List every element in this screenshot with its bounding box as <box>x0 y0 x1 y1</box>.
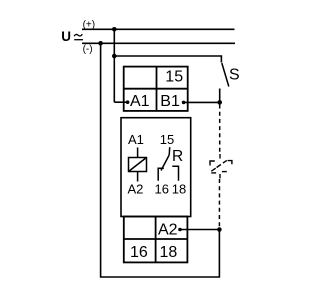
wire: (-) supply rail <box>82 42 235 44</box>
AC/DC symbol (tilde over bar) <box>74 34 82 36</box>
contact blade (closed to 16) <box>161 155 169 171</box>
svg-text:15: 15 <box>165 69 183 86</box>
wire: from terminal B1 to switch node <box>184 101 220 103</box>
svg-text:R: R <box>172 148 183 165</box>
module body box <box>121 118 191 217</box>
dashed branch wire upper <box>219 105 221 154</box>
svg-text:A2: A2 <box>128 181 144 196</box>
contact pole line from 15 <box>168 147 171 155</box>
terminal dot B1 <box>182 101 186 105</box>
wire: from terminal A2 to right node <box>180 229 219 231</box>
terminal dot A1 <box>126 100 130 104</box>
svg-text:18: 18 <box>160 244 178 261</box>
dashed external contact symbol <box>210 154 232 178</box>
svg-text:18: 18 <box>172 181 186 196</box>
dashed branch wire lower <box>218 179 220 227</box>
bottom terminal block <box>124 217 188 263</box>
node on (-) rail <box>98 41 103 46</box>
top terminal block <box>124 67 188 111</box>
switch S blade <box>222 63 229 87</box>
contact 18 hook <box>172 166 178 181</box>
coil lower lead <box>137 172 139 182</box>
node on (+) rail <box>112 27 117 32</box>
svg-text:16: 16 <box>155 181 169 196</box>
relay coil box with diagonal <box>129 158 147 172</box>
terminal dot A2 <box>178 228 182 232</box>
svg-text:B1: B1 <box>160 93 180 110</box>
svg-text:A1: A1 <box>128 132 144 147</box>
node A2 / return / dashed branch <box>217 227 222 232</box>
wire: (+) supply rail <box>82 28 235 30</box>
wire: into terminal A1 <box>114 101 127 103</box>
wire: branch to switch S <box>114 56 221 63</box>
svg-text:A2: A2 <box>158 222 178 239</box>
svg-text:S: S <box>229 67 240 84</box>
svg-text:(-): (-) <box>83 44 93 55</box>
node B1 / switch / dashed branch <box>217 100 222 105</box>
wire: switch lower stub <box>219 89 221 103</box>
svg-text:15: 15 <box>160 132 174 147</box>
svg-text:U: U <box>61 29 71 44</box>
node branch to S and A1 <box>112 54 117 59</box>
wire: (-) rail drop and bottom return loop to A2 <box>101 43 220 277</box>
contact 16 hook <box>158 168 164 181</box>
svg-text:16: 16 <box>130 244 148 261</box>
svg-text:A1: A1 <box>130 93 150 110</box>
wire: vertical drop from (+) rail to branch node <box>113 29 115 102</box>
coil upper lead <box>137 148 139 158</box>
